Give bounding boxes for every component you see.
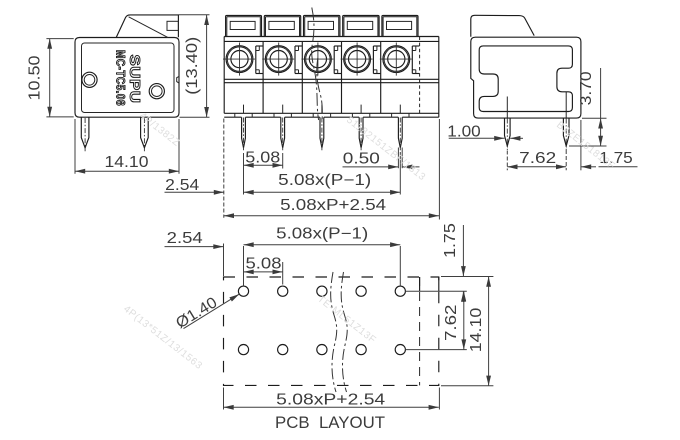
pcb top-right extension line (441, 276, 493, 278)
front screw 3 crosshair (301, 58, 333, 60)
dim 14.10 line (75, 170, 179, 172)
left view lever latch notch (167, 21, 178, 30)
front screw 2 outer ring (265, 46, 292, 73)
pcb hole A4 (356, 286, 366, 296)
front lever block 5 slot (387, 21, 412, 29)
left view screw hole A inner (84, 75, 95, 86)
svg-text:7.62: 7.62 (443, 305, 460, 342)
dim 10.50 line (49, 39, 51, 117)
right view pin 1 centerline (506, 119, 508, 151)
dim 1.00 arrows (449, 137, 505, 139)
front screw 3 outer ring (305, 46, 332, 73)
front screw 1 mid ring (227, 47, 251, 71)
front view left edge (223, 37, 225, 114)
svg-text:5.08x(P−1): 5.08x(P−1) (278, 172, 371, 189)
front pin 5 centerline (399, 118, 401, 151)
dim pcb 1.75 arrows (462, 225, 464, 276)
right view pin 1 hidden line (506, 97, 508, 119)
front view top edge (224, 36, 439, 38)
front screw 1 inner circle (231, 51, 248, 68)
front break line (312, 8, 319, 121)
pcb hole A5 (395, 286, 405, 296)
right view body (471, 37, 581, 118)
right view cavity (479, 46, 572, 112)
front view right edge (438, 37, 440, 118)
pcb hole B3 (317, 345, 327, 355)
svg-text:1.75: 1.75 (442, 223, 459, 258)
svg-text:7.62: 7.62 (519, 150, 556, 167)
front screw 3 mid ring (306, 47, 330, 71)
dim pcb 5.08xP+2.54 extension lines (223, 388, 225, 410)
front unit wall 4 (380, 41, 382, 113)
dim (13.40) extension lines (179, 14, 210, 16)
front view foot ticks (234, 113, 236, 117)
dim pcb 2.54 arrow (165, 246, 224, 248)
dim front 5.08xP+2.54 line (224, 215, 439, 217)
dim 1.75 arrow (581, 166, 596, 168)
front pin 1 hidden line (243, 105, 245, 114)
svg-text:MC-TC5.08: MC-TC5.08 (113, 50, 125, 106)
dim (13.40) line (206, 15, 208, 117)
front view foot strip (224, 116, 241, 118)
pcb hole A3 (317, 286, 327, 296)
left view body right-edge notch (177, 76, 179, 83)
front pin 5 edge extension lines (397, 148, 399, 169)
pcb hole B5 (395, 345, 405, 355)
pcb corner notch lines (419, 277, 421, 291)
front screw 4 crosshair (341, 58, 373, 60)
left view screw hole A outer (82, 72, 97, 87)
front pin 3 (320, 117, 324, 148)
dim 3.70 line upper tail (600, 68, 602, 118)
front pin 3 centerline (321, 118, 323, 151)
left view lever (116, 15, 178, 38)
pcb hole A2 (278, 286, 288, 296)
pcb break line 1 (331, 272, 337, 392)
front screw 1 outer ring (226, 46, 253, 73)
right view pin 1 (505, 118, 511, 146)
front screw 1 crosshair (223, 58, 255, 60)
pcb module boundary (dashed) (419, 277, 421, 385)
svg-text:2.54: 2.54 (167, 230, 203, 247)
front lever block 3 (304, 16, 340, 37)
front pin 4 (359, 117, 363, 148)
svg-text:5.08: 5.08 (245, 149, 280, 166)
left view pin 1 centerline (84, 118, 86, 151)
front screw 5 mid ring (384, 47, 408, 71)
dim front 0.50 arrows (343, 166, 399, 168)
front pin 5 (398, 117, 402, 148)
right view lever (471, 15, 534, 37)
dim 7.62 extension lines (506, 151, 508, 171)
front screw 4 mid ring (345, 47, 369, 71)
front right edge extension line (438, 119, 440, 220)
pcb break line 2 (341, 272, 347, 392)
svg-text:5.08: 5.08 (246, 255, 282, 272)
front screw 5 inner circle (388, 51, 405, 68)
dim pcb 5.08x(P-1) line (244, 244, 401, 246)
dim pcb 5.08xP+2.54 line (224, 406, 439, 408)
dim 10.50 extension lines (46, 38, 73, 40)
front view mid rib line b (224, 82, 439, 84)
svg-text:5.08xP+2.54: 5.08xP+2.54 (276, 391, 385, 408)
watermark (121, 111, 617, 372)
front screw 3 inner circle (309, 51, 326, 68)
left view pin 2 (141, 117, 149, 148)
pcb hole A1 (238, 286, 248, 296)
front pin 1 centerline (243, 118, 245, 151)
front pin 2 (281, 117, 285, 148)
dim 7.62 line (507, 166, 566, 168)
front screw 2 mid ring (267, 47, 291, 71)
front lever block 5 inner line (383, 17, 417, 37)
front screw 5 outer ring (383, 46, 410, 73)
dim pcb 5.08x(P-1) extension lines (243, 246, 245, 286)
front pin 5 hidden line (399, 105, 401, 114)
dim front 2.54 arrow (165, 191, 225, 193)
front lever block 1 (226, 16, 262, 37)
svg-text:14.10: 14.10 (105, 154, 149, 171)
front lever block 3 slot (308, 21, 333, 29)
left view screw hole B outer (149, 84, 164, 99)
dim 14.10 extension lines (74, 119, 76, 174)
front clamp flange 4 (372, 46, 374, 74)
front clamp flange 3 (333, 46, 335, 74)
pcb row A reference line (405, 290, 466, 292)
pcb bottom-right extension line (441, 385, 493, 387)
svg-text:3.70: 3.70 (578, 71, 595, 105)
dim front 5.08 extension lines (243, 153, 245, 169)
front clamp flange 5 (411, 46, 413, 74)
front view mid rib line a (224, 78, 439, 80)
front module boundary (dashed) (419, 37, 421, 114)
right view pin 2 centerline (565, 119, 567, 151)
dim 3.70 extension lines (582, 117, 607, 119)
svg-text:0.50: 0.50 (343, 150, 380, 167)
right view pin 2 (563, 118, 569, 146)
pcb hole B2 (278, 345, 288, 355)
front lever block 2 inner line (266, 17, 300, 37)
dim front 5.08x(P-1) extension lines (243, 153, 245, 195)
front unit wall 2 (301, 41, 303, 113)
left view body (75, 38, 179, 118)
front unit wall 1 (262, 41, 264, 113)
svg-text:10.50: 10.50 (27, 55, 44, 100)
front pin 4 centerline (360, 118, 362, 151)
front lever block 3 inner line (305, 17, 339, 37)
front left edge extension line (223, 119, 225, 218)
front lever block 4 (343, 16, 379, 37)
front pin 2 centerline (282, 118, 284, 151)
front clamp flange 2 (294, 46, 296, 74)
front pin 3 hidden line (321, 105, 323, 114)
svg-text:1.00: 1.00 (447, 123, 481, 140)
front lever block 2 (264, 16, 300, 37)
dim front 5.08 line (244, 164, 283, 166)
dim 3.70 line (600, 118, 602, 146)
dim 1.75 extension line (580, 120, 582, 170)
svg-text:PCB LAYOUT: PCB LAYOUT (275, 414, 385, 432)
svg-text:5.08xP+2.54: 5.08xP+2.54 (280, 197, 386, 214)
front screw 4 inner circle (349, 51, 366, 68)
front view upper rib line (224, 40, 439, 42)
pcb outline (dashed) (224, 277, 439, 385)
svg-text:5.08x(P−1): 5.08x(P−1) (276, 225, 368, 242)
svg-text:SUPU: SUPU (126, 55, 143, 104)
front screw 2 inner circle (270, 51, 287, 68)
pcb hole B4 (356, 345, 366, 355)
dim pcb 5.08 line (244, 271, 283, 273)
right view pin 2 hidden line (565, 92, 567, 118)
svg-text:14.10: 14.10 (468, 307, 485, 352)
front screw 5 crosshair (380, 58, 412, 60)
front lever block 1 inner line (227, 17, 260, 37)
dim pcb 7.62 line (463, 291, 465, 349)
dim 1.75 tail line (599, 166, 638, 168)
front lever block 4 slot (347, 21, 372, 29)
left view pin 2 centerline (143, 118, 145, 151)
dim front 5.08x(P-1) line (244, 191, 401, 193)
svg-text:(13.40): (13.40) (184, 37, 201, 95)
pcb row B reference line (405, 349, 466, 351)
front clamp flange 1 (255, 46, 257, 74)
front lever block 4 inner line (344, 17, 378, 37)
left view screw hole B inner (152, 86, 163, 97)
front pin 4 hidden line (360, 105, 362, 114)
front view bottom edge (224, 112, 439, 114)
left view inner face (82, 43, 175, 113)
pcb left edge extension line (223, 244, 225, 277)
front break line 2 (317, 58, 323, 120)
dim pcb 5.08 extension line (282, 262, 284, 285)
front pin 1 (242, 117, 246, 148)
front unit wall 3 (341, 41, 343, 113)
front screw 2 crosshair (262, 58, 294, 60)
pcb hole B1 (238, 345, 248, 355)
front lever block 1 slot (230, 21, 255, 29)
left view pin 1 (81, 117, 89, 148)
front pin 2 hidden line (282, 105, 284, 114)
front lever block 2 slot (269, 21, 294, 29)
left view lever slot line (129, 17, 168, 38)
front lever block 5 (382, 16, 418, 37)
dim pcb diameter leader (184, 294, 240, 329)
front screw 4 outer ring (344, 46, 371, 73)
dim pcb 14.10 line (488, 277, 490, 386)
svg-text:2.54: 2.54 (165, 177, 199, 194)
